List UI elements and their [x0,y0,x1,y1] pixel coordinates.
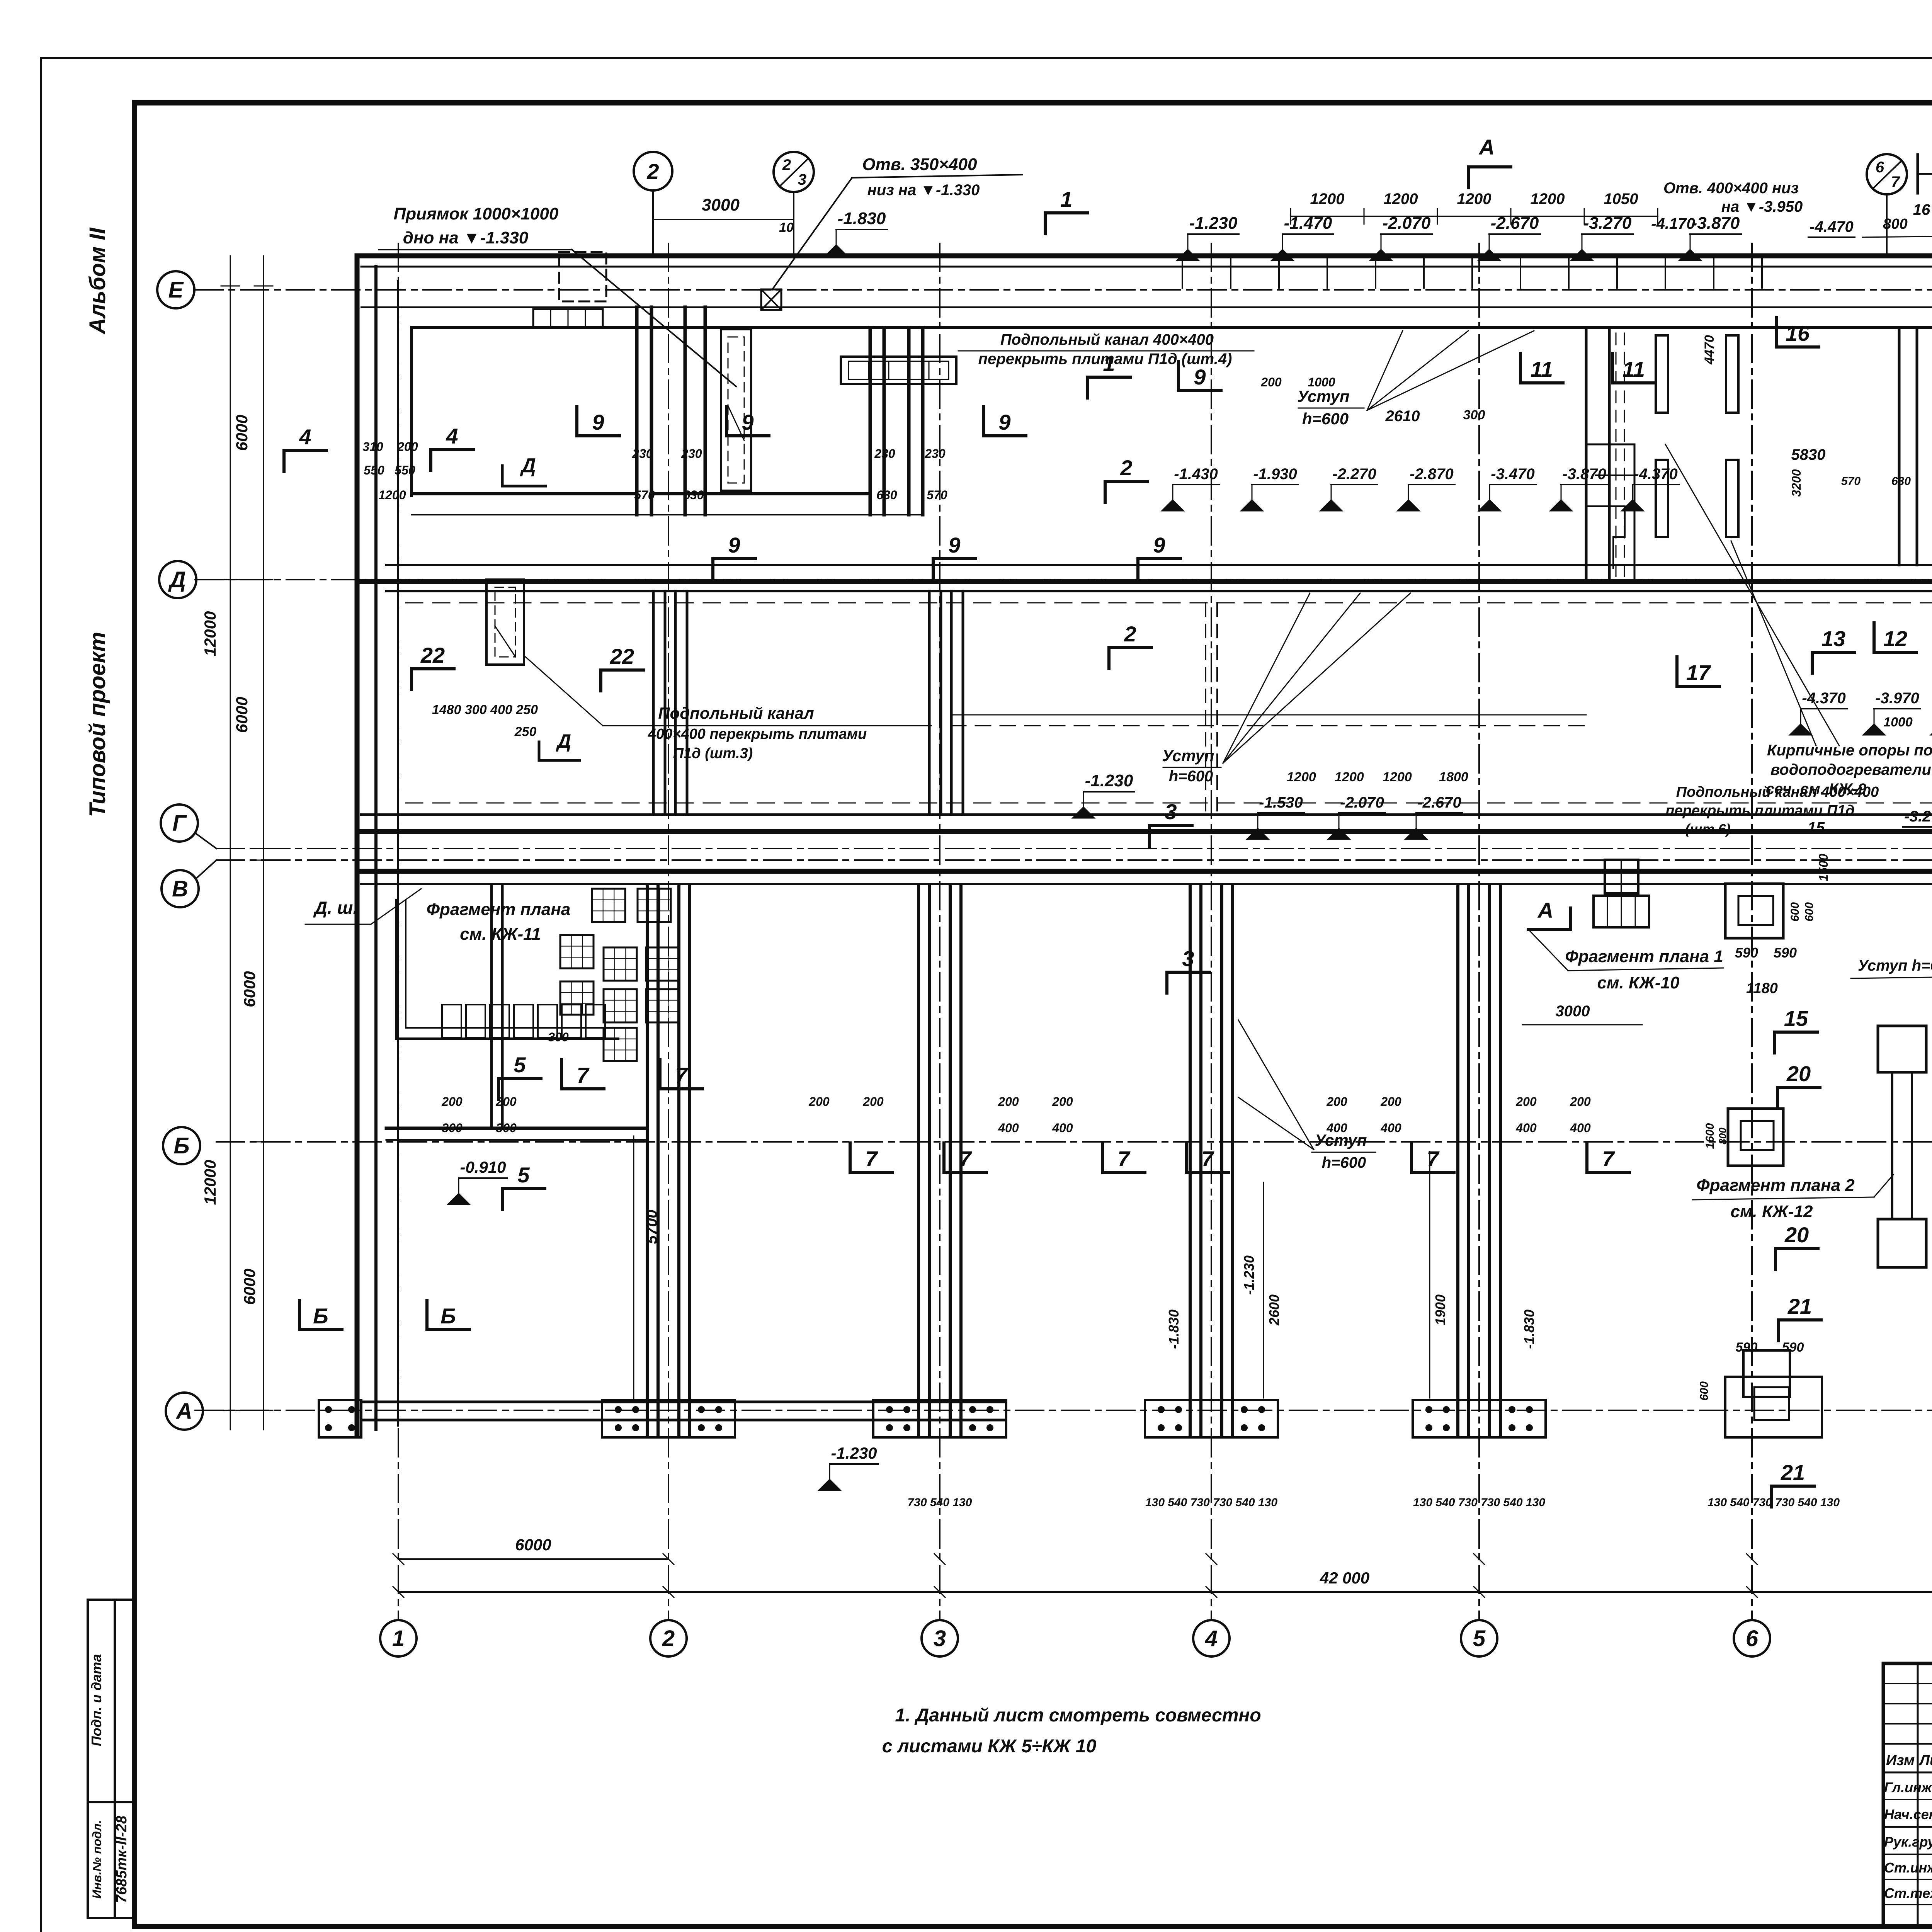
svg-text:400: 400 [1515,1121,1537,1135]
axis line Е [195,289,1932,291]
svg-text:2: 2 [1124,622,1136,646]
axis line 2 [668,243,669,1620]
svg-text:h=600: h=600 [1322,1154,1366,1171]
svg-text:12: 12 [1883,626,1907,651]
fragment pad near axis 5 [1605,860,1638,893]
svg-text:400: 400 [1052,1121,1073,1135]
svg-text:400: 400 [998,1121,1019,1135]
svg-text:9: 9 [998,410,1010,434]
svg-text:130 540 730 730 540 130: 130 540 730 730 540 130 [1145,1496,1277,1509]
svg-text:6000: 6000 [233,415,251,451]
svg-text:-2.070: -2.070 [1383,214,1431,233]
svg-text:570: 570 [634,488,655,502]
svg-text:-1.530: -1.530 [1259,794,1303,811]
svg-text:7: 7 [1117,1146,1131,1171]
svg-text:-1.470: -1.470 [1284,214,1332,233]
step ticks on top wall [1182,258,1183,288]
title name rows [1883,1799,1932,1800]
svg-text:200: 200 [495,1095,517,1109]
room1 inner left edge [410,328,413,495]
svg-text:1: 1 [1060,187,1072,211]
svg-text:Рук.групп.: Рук.групп. [1884,1834,1932,1850]
svg-text:2600: 2600 [1266,1294,1282,1326]
svg-text:-2.070: -2.070 [1340,794,1384,811]
axis line Д [195,579,1932,580]
svg-text:4: 4 [1205,1626,1218,1651]
top axis circle 6/7 [1867,154,1907,194]
svg-text:Уступ: Уступ [1297,387,1349,405]
svg-text:590: 590 [1735,945,1758,961]
svg-text:230: 230 [632,447,653,461]
axis line 4 [1211,243,1212,1620]
svg-text:7685тк-II-28: 7685тк-II-28 [114,1815,130,1903]
svg-text:200: 200 [1380,1095,1401,1109]
title block outer [1883,1663,1932,1926]
svg-text:200: 200 [808,1095,830,1109]
svg-text:200: 200 [1570,1095,1591,1109]
partition left of axis 2 [635,307,639,515]
marker 19 top [1917,155,1919,193]
svg-text:-4.370: -4.370 [1634,466,1677,483]
svg-text:дно на ▼-1.330: дно на ▼-1.330 [403,228,529,247]
svg-text:-4.470: -4.470 [1810,218,1853,235]
svg-text:130 540 730 730 540 130: 130 540 730 730 540 130 [1413,1496,1545,1509]
bottom-left room L-wall [396,900,618,1039]
svg-text:5: 5 [1473,1626,1486,1651]
title header row line [1883,1772,1932,1774]
svg-text:630: 630 [683,488,704,502]
pryamok dashed box top-left [559,252,606,301]
left exterior wall [355,256,360,1434]
svg-text:6000: 6000 [515,1536,551,1554]
svg-text:2: 2 [782,156,791,173]
axis Г leader [195,833,216,849]
svg-text:200: 200 [441,1095,463,1109]
cross wall axis 3 in D-G band [928,591,931,815]
strip pier at axis x=1730 [646,885,649,1434]
svg-text:Подпольный канал 400×400: Подпольный канал 400×400 [1000,331,1214,348]
svg-text:Изм: Изм [1886,1752,1915,1769]
mid-bay dim verticals [1263,1182,1264,1398]
axis circle Б [163,1127,200,1164]
svg-text:11: 11 [1531,357,1553,381]
brick pier [1726,335,1738,413]
svg-text:1480 300 400 250: 1480 300 400 250 [432,702,538,717]
svg-text:9: 9 [948,533,960,557]
axis line 5 [1478,243,1480,1620]
footing pad axis 2 [602,1400,735,1437]
svg-text:-3.870: -3.870 [1692,214,1740,233]
svg-text:см. КЖ-12: см. КЖ-12 [1731,1202,1813,1221]
svg-text:перекрыть плитами П1д: перекрыть плитами П1д [1665,803,1854,819]
svg-text:16: 16 [1913,201,1930,218]
svg-text:h=600: h=600 [1169,768,1213,785]
svg-text:16: 16 [1786,321,1810,345]
svg-text:1200: 1200 [1335,770,1364,784]
axis circle 1 [380,1620,417,1656]
svg-text:(шт.6): (шт.6) [1685,821,1731,837]
svg-text:Кирпичные опоры под: Кирпичные опоры под [1767,742,1932,759]
svg-text:7: 7 [675,1063,688,1087]
footing axis 6 lower [1728,1109,1783,1166]
comb footing row [442,1005,461,1038]
svg-text:-1.830: -1.830 [838,209,886,228]
svg-text:-1.930: -1.930 [1253,466,1297,483]
top axis circle 2 [634,152,672,190]
svg-text:низ на ▼-1.330: низ на ▼-1.330 [867,182,980,199]
svg-text:Фрагмент плана 2: Фрагмент плана 2 [1696,1176,1855,1195]
svg-text:3: 3 [1165,799,1177,824]
svg-text:Ст.техник: Ст.техник [1884,1885,1932,1901]
axis В leader [196,860,216,879]
svg-text:800: 800 [1883,216,1907,232]
svg-text:1200: 1200 [378,488,406,502]
svg-text:1200: 1200 [1383,770,1412,784]
svg-text:1200: 1200 [1287,770,1316,784]
svg-text:590: 590 [1736,1340,1758,1355]
dashed ledge above G wall [406,803,1932,804]
svg-text:590: 590 [1782,1340,1804,1355]
svg-text:3: 3 [934,1626,946,1651]
svg-text:7: 7 [865,1146,878,1171]
svg-text:17: 17 [1686,660,1711,685]
svg-text:7: 7 [1891,173,1900,190]
partition near x=4940 [1898,329,1901,565]
svg-text:4: 4 [446,424,458,448]
svg-text:-3.870: -3.870 [1562,466,1606,483]
svg-text:-1.230: -1.230 [1085,771,1133,790]
svg-text:2: 2 [1120,456,1132,480]
svg-text:550: 550 [395,463,415,477]
svg-text:3000: 3000 [1556,1003,1590,1020]
underfloor canal room 2-3 [841,357,956,384]
svg-text:12000: 12000 [201,611,219,656]
axis circle 3 [922,1620,958,1656]
brick pier [1656,335,1668,413]
svg-text:на ▼-3.950: на ▼-3.950 [1721,198,1803,215]
svg-text:-3.470: -3.470 [1491,466,1534,483]
bottom wall left part [361,1401,1005,1403]
svg-text:12000: 12000 [201,1160,219,1205]
svg-text:-1.430: -1.430 [1174,466,1218,483]
svg-text:Подпольный канал: Подпольный канал [658,704,814,722]
svg-text:20: 20 [1784,1223,1809,1247]
svg-text:42 000: 42 000 [1320,1569,1369,1587]
canal inner [849,361,949,379]
svg-text:11: 11 [1622,357,1645,381]
svg-text:21: 21 [1781,1460,1805,1485]
svg-text:-1.830: -1.830 [1166,1310,1182,1349]
svg-text:15: 15 [1784,1006,1808,1031]
dashed rails axis 4 D-G [1205,603,1206,811]
partition right of axis 5 [1585,329,1588,582]
svg-text:5700: 5700 [643,1210,660,1244]
svg-text:Фрагмент плана: Фрагмент плана [427,900,571,919]
svg-text:230: 230 [924,447,946,461]
room bottoms E-D band [412,492,634,495]
svg-text:h=600: h=600 [1302,410,1349,428]
svg-text:9: 9 [592,410,604,434]
svg-text:230: 230 [874,447,895,461]
partition right of axis 3 [907,328,911,515]
partition bay1-2 lower section [490,885,493,1128]
axis line Б [216,1141,1932,1143]
svg-text:7: 7 [1602,1146,1615,1171]
left dimension chain lines [230,256,231,1430]
svg-text:200: 200 [1052,1095,1073,1109]
svg-text:1600: 1600 [1704,1123,1716,1149]
svg-text:6000: 6000 [233,697,251,733]
svg-text:Фрагмент плана 1: Фрагмент плана 1 [1565,947,1723,966]
brick pier [1726,460,1738,537]
underfloor canal top-left horizontal [533,309,603,328]
svg-text:Б: Б [440,1304,456,1328]
svg-text:Подпольный канал 400×400: Подпольный канал 400×400 [1676,784,1879,800]
title block small upper rows [1883,1683,1932,1684]
svg-text:Д: Д [556,730,571,752]
axis circle Г [161,804,198,842]
svg-text:3: 3 [1182,946,1194,971]
title block left table verticals [1917,1663,1919,1926]
svg-text:Лист: Лист [1918,1752,1932,1769]
svg-text:570: 570 [927,488,947,502]
axis line 3 [939,243,940,1620]
svg-text:130 540 730 730 540 130: 130 540 730 730 540 130 [1708,1496,1840,1509]
svg-text:Подп. и дата: Подп. и дата [88,1654,104,1746]
strip pier at axis x=2432 [917,885,920,1434]
brick pier [1656,460,1668,537]
top rooms wall line [412,326,1932,329]
svg-text:400: 400 [1380,1121,1401,1135]
wall on axis V [361,869,1932,874]
svg-text:9: 9 [1194,365,1206,389]
top dimension chain 1200s [1291,216,1658,217]
svg-text:250: 250 [514,724,537,739]
axis circle Д [159,561,196,598]
svg-text:10: 10 [779,220,794,235]
svg-text:Нач.сект.: Нач.сект. [1884,1806,1932,1822]
svg-text:1800: 1800 [1439,770,1468,784]
svg-text:230: 230 [681,447,702,461]
svg-text:1: 1 [392,1626,405,1651]
wall on axis G [361,813,1932,816]
footing pad axis 3 [873,1400,1006,1437]
svg-text:Уступ h=600: Уступ h=600 [1858,957,1932,974]
top axis circle 2/3 [774,152,814,192]
svg-text:Отв. 400×400 низ: Отв. 400×400 низ [1663,180,1799,197]
svg-text:300: 300 [548,1030,569,1044]
cross wall axis 2 in D-G band [652,591,655,815]
svg-text:В: В [172,876,188,901]
pryamok shaft right of axis 2 [721,329,751,491]
svg-text:-3.970: -3.970 [1875,690,1919,707]
svg-text:с листами КЖ 5÷КЖ 10: с листами КЖ 5÷КЖ 10 [882,1736,1097,1757]
svg-text:1200: 1200 [1531,190,1565,207]
mid corridor ledge line [951,714,1586,716]
svg-text:7: 7 [1201,1146,1214,1171]
svg-text:1200: 1200 [1457,190,1492,207]
svg-text:А: А [1478,135,1495,159]
overall dim 42000 [398,1591,1932,1593]
axis circle 5 [1461,1620,1497,1656]
svg-text:Д. ш.: Д. ш. [313,898,358,918]
strip pier at axis x=3828 [1456,885,1459,1434]
svg-text:1. Данный лист смотреть: 1. Данный лист смотреть совместно [895,1705,1261,1726]
svg-text:630: 630 [876,488,897,502]
footing axis 6 upper [1725,884,1783,938]
top exterior wall inner lines [361,266,1932,268]
svg-text:-2.870: -2.870 [1410,466,1453,483]
svg-text:3: 3 [798,171,806,188]
svg-text:Отв. 350×400: Отв. 350×400 [862,155,977,174]
svg-text:водоподогреватели: водоподогреватели [1770,761,1931,778]
axis line А [195,1410,1932,1411]
svg-text:21: 21 [1787,1294,1812,1318]
svg-text:-3.270: -3.270 [1583,214,1632,233]
axis circle 6 [1734,1620,1770,1656]
svg-text:600: 600 [1789,902,1801,922]
svg-text:300: 300 [442,1121,463,1135]
svg-text:9: 9 [1153,533,1165,557]
axis circle 4 [1193,1620,1230,1656]
axis line 1 [398,243,399,1620]
svg-text:Типовой проект: Типовой проект [85,632,110,817]
svg-text:6000: 6000 [240,1269,259,1304]
svg-text:-2.670: -2.670 [1417,794,1461,811]
svg-text:2: 2 [646,159,659,184]
svg-text:7: 7 [1427,1146,1440,1171]
svg-text:630: 630 [1891,475,1911,488]
svg-text:-4.170: -4.170 [1651,215,1695,232]
svg-text:200: 200 [1515,1095,1537,1109]
svg-text:3200: 3200 [1789,469,1803,497]
ledge dashed line below D [406,602,1932,604]
svg-text:600: 600 [1698,1381,1711,1401]
svg-text:Д: Д [168,567,186,592]
axis circle В [162,870,199,907]
svg-text:22: 22 [420,643,445,667]
svg-text:-2.270: -2.270 [1332,466,1376,483]
svg-text:9: 9 [742,410,753,434]
svg-text:2610: 2610 [1385,408,1420,425]
svg-text:Б: Б [313,1304,328,1328]
axis circle А [166,1393,203,1430]
svg-text:7: 7 [959,1146,972,1171]
svg-text:см. КЖ-11: см. КЖ-11 [460,925,541,944]
svg-text:9: 9 [728,533,740,557]
dashed rails right of axis 5 [1616,333,1617,580]
svg-text:6000: 6000 [240,971,259,1007]
hatched footing squares [592,889,625,922]
svg-text:-3.270: -3.270 [1904,808,1932,825]
svg-text:3000: 3000 [702,196,740,214]
wall on axis D [386,564,1932,566]
svg-text:1000: 1000 [1883,715,1913,730]
dim 6000 left bay [398,1558,668,1560]
footing pad axis 4 [1145,1400,1278,1437]
svg-text:-4.370: -4.370 [1802,690,1845,707]
svg-text:-2.670: -2.670 [1491,214,1539,233]
canal vertical in D-G left room [486,580,524,665]
axis B wall left part [386,1127,647,1130]
axis line В [216,859,1932,861]
svg-text:см. КЖ-10: см. КЖ-10 [1597,973,1680,992]
svg-text:310: 310 [362,440,383,454]
svg-text:А: А [175,1399,192,1424]
svg-text:4: 4 [299,425,311,449]
left margin stamp boxes [88,1600,135,1918]
svg-text:-0.910: -0.910 [460,1158,506,1176]
svg-text:13: 13 [1821,626,1845,651]
svg-text:600: 600 [1803,902,1816,922]
top exterior wall outer face [361,253,1932,259]
axis line Г [216,848,1932,849]
svg-text:-1.830: -1.830 [1521,1310,1537,1349]
svg-text:1200: 1200 [1384,190,1418,207]
svg-text:300: 300 [1463,408,1485,422]
T-shaped foundation [1878,1026,1926,1072]
svg-text:570: 570 [1841,475,1861,488]
partition right of axis 2 [684,307,687,515]
svg-text:1000: 1000 [1308,375,1335,389]
svg-text:Д: Д [520,454,536,477]
svg-text:5: 5 [517,1163,530,1187]
svg-text:7: 7 [577,1063,590,1087]
svg-text:-1.230: -1.230 [1189,214,1238,233]
svg-text:Гл.инж.пр: Гл.инж.пр [1884,1779,1932,1795]
svg-text:Приямок 1000×1000: Приямок 1000×1000 [394,204,559,223]
svg-text:1180: 1180 [1746,980,1778,997]
svg-text:-1.230: -1.230 [831,1444,877,1462]
svg-text:400: 400 [1326,1121,1347,1135]
strip pier at axis x=3135 [1189,885,1192,1434]
svg-text:4470: 4470 [1702,335,1717,365]
svg-text:2: 2 [662,1626,675,1651]
svg-text:П1д (шт.3): П1д (шт.3) [673,745,753,762]
svg-text:200: 200 [862,1095,884,1109]
partition left of axis 3 [869,328,872,515]
footing axis 6 at A [1725,1377,1822,1437]
svg-text:Б: Б [173,1133,189,1158]
svg-text:20: 20 [1786,1061,1811,1086]
svg-text:200: 200 [1326,1095,1347,1109]
svg-text:200: 200 [397,440,418,454]
svg-text:Альбом II: Альбом II [85,227,110,335]
svg-text:Инв.№ подл.: Инв.№ подл. [90,1820,104,1899]
svg-text:200: 200 [1260,375,1282,389]
svg-text:1200: 1200 [1310,190,1345,207]
svg-text:800: 800 [1717,1128,1728,1145]
svg-text:Е: Е [168,277,184,303]
svg-text:5: 5 [514,1053,526,1077]
svg-text:550: 550 [364,463,384,477]
svg-text:6: 6 [1876,159,1884,176]
stepped foundation near axis 5 [1586,444,1634,582]
svg-text:5830: 5830 [1791,446,1826,463]
svg-text:Ст.инж.: Ст.инж. [1884,1860,1932,1876]
footing pad axis 5 [1413,1400,1546,1437]
svg-text:1500: 1500 [1816,854,1830,881]
svg-text:1050: 1050 [1604,190,1638,207]
footing pad left wall [319,1400,361,1437]
svg-text:200: 200 [998,1095,1019,1109]
axis circle 2 [650,1620,687,1656]
svg-text:А: А [1537,898,1553,922]
svg-text:Уступ: Уступ [1162,747,1214,765]
svg-text:730 540 130: 730 540 130 [908,1496,972,1509]
axis circle Е [157,271,194,308]
axis line 6 [1751,243,1753,1620]
